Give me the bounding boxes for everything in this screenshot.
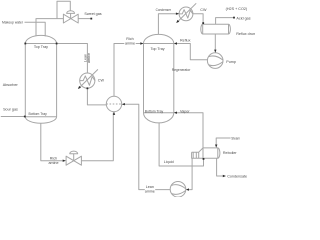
- wire valve outlet sweet gas: [78, 18, 91, 20]
- svg-text:Liquid: Liquid: [164, 160, 174, 164]
- arrow into exchanger right: [122, 103, 125, 105]
- node cooler inlet: [87, 87, 89, 89]
- svg-text:Acid gas: Acid gas: [236, 17, 250, 21]
- svg-text:Makeup water: Makeup water: [2, 20, 24, 24]
- pump P1 reflux: [207, 53, 223, 69]
- node absorber top-right: [56, 43, 58, 45]
- arrow cooler diagonal: [78, 86, 81, 89]
- label backgrounds: [124, 36, 155, 192]
- node sour gas: [24, 116, 26, 118]
- wire rich amine from absorber bottom: [41, 123, 64, 161]
- wire makeup water line: [25, 22, 46, 36]
- absorber column T-1: [25, 35, 56, 123]
- node absorber top-left: [24, 43, 26, 45]
- regenerator top tray line: [144, 43, 174, 45]
- svg-text:Vapor: Vapor: [180, 109, 190, 113]
- reboiler E4 kettle: [203, 148, 220, 158]
- wire drum to pump P1: [214, 34, 216, 51]
- svg-text:Sour gas: Sour gas: [3, 108, 18, 112]
- arrowheads and junction dots: [24, 13, 235, 191]
- heat exchanger E1 lean/rich: [106, 96, 121, 111]
- svg-text:amine: amine: [125, 42, 135, 46]
- svg-text:Bottom Tray: Bottom Tray: [29, 112, 48, 116]
- node reboiler liquid inlet: [203, 158, 205, 160]
- svg-text:Condenser: Condenser: [156, 8, 172, 12]
- wire vapor line: [175, 113, 203, 148]
- arrow into condenser: [176, 13, 179, 15]
- heat exchanger E2 CW cooler: [80, 73, 95, 88]
- arrow reflux into regenerator: [174, 42, 177, 44]
- wire liquid line to reboiler: [159, 123, 203, 166]
- wire lean amine pump to exchanger: [123, 104, 170, 189]
- node sweet gas terminal: [90, 18, 92, 20]
- regenerator bottom tray line: [144, 112, 174, 114]
- svg-text:Pump: Pump: [226, 60, 236, 64]
- arrow condenser diagonal: [176, 20, 179, 23]
- svg-text:Condensate: Condensate: [227, 175, 247, 179]
- svg-text:Rich: Rich: [126, 37, 133, 41]
- absorber bottom tray line: [25, 116, 56, 118]
- wire valve signal loop: [57, 1, 70, 18]
- reflux drum D1: [201, 24, 231, 34]
- wire reflux to regenerator: [175, 44, 208, 60]
- svg-text:Regenerator: Regenerator: [172, 68, 191, 72]
- svg-text:(H2S + CO2): (H2S + CO2): [226, 7, 248, 11]
- wire sweet gas riser: [36, 19, 63, 36]
- valve V2 rich amine: [66, 156, 81, 165]
- wire reboiler to pump P2: [187, 158, 192, 189]
- arrow vapor into regenerator: [174, 112, 177, 114]
- wire sour gas in: [1, 116, 25, 118]
- svg-text:Top Tray: Top Tray: [34, 45, 48, 49]
- wire cooler to exchanger: [87, 88, 106, 105]
- arrow condensate: [223, 175, 226, 177]
- heat exchanger E3 condenser: [179, 7, 193, 21]
- arrow before rich valve: [63, 160, 66, 162]
- svg-text:amine: amine: [48, 161, 58, 165]
- arrow steam into reboiler: [215, 145, 217, 148]
- arrow rich amine into regenerator: [140, 42, 143, 44]
- valve V1 sweet gas: [63, 14, 78, 23]
- wire condenser to reflux drum: [193, 14, 203, 25]
- pump P2 lean amine: [170, 182, 186, 198]
- node drum inlet: [202, 22, 204, 24]
- svg-text:Leanamine: Leanamine: [83, 53, 91, 63]
- svg-text:CW: CW: [98, 79, 105, 83]
- svg-text:CW: CW: [200, 8, 207, 12]
- svg-text:Bottom Tray: Bottom Tray: [145, 110, 164, 114]
- svg-text:Reboiler: Reboiler: [223, 151, 238, 155]
- wire steam in: [216, 138, 230, 146]
- arrow into exchanger bottom: [113, 112, 115, 115]
- arrow into pump P2: [186, 188, 189, 190]
- svg-text:Lean: Lean: [146, 185, 154, 189]
- svg-text:Rich: Rich: [50, 157, 57, 161]
- svg-text:Reflux: Reflux: [180, 38, 191, 42]
- wire lean amine to absorber top: [57, 44, 88, 73]
- svg-text:amine: amine: [145, 190, 155, 194]
- wire condensate out: [217, 158, 225, 176]
- svg-text:Steam: Steam: [231, 137, 240, 141]
- wire acid gas: [216, 18, 234, 25]
- svg-text:Top Tray: Top Tray: [151, 47, 165, 51]
- svg-text:Reflux drum: Reflux drum: [236, 32, 255, 36]
- wire regenerator to condenser: [158, 14, 178, 35]
- absorber top tray line: [25, 43, 56, 45]
- regenerator column T-2: [144, 34, 174, 123]
- node acid gas terminal: [233, 17, 235, 19]
- svg-text:Absorber: Absorber: [3, 83, 19, 87]
- arrow into pump P1: [214, 50, 216, 53]
- svg-text:Sweet gas: Sweet gas: [84, 12, 101, 16]
- wire rich amine exchanger to regenerator: [114, 44, 143, 97]
- wire valve to exchanger bottom: [82, 113, 114, 161]
